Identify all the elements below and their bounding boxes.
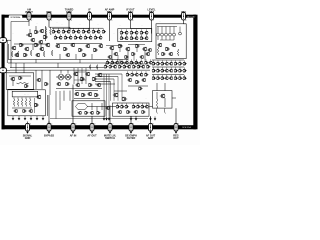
svg-text:6: 6 bbox=[132, 20, 133, 22]
svg-text:CIRC: CIRC bbox=[66, 11, 72, 14]
svg-text:7: 7 bbox=[153, 20, 154, 22]
svg-text:14: 14 bbox=[74, 123, 76, 125]
svg-text:SCH 12-A: SCH 12-A bbox=[182, 126, 191, 129]
svg-text:AF OUT: AF OUT bbox=[87, 135, 97, 138]
svg-text:IN: IN bbox=[88, 11, 91, 14]
svg-text:OSC: OSC bbox=[46, 11, 52, 14]
svg-text:BYPASS: BYPASS bbox=[44, 135, 54, 138]
svg-text:8: 8 bbox=[185, 20, 186, 22]
svg-text:5: 5 bbox=[111, 20, 112, 22]
svg-text:12: 12 bbox=[111, 123, 113, 125]
svg-text:VCC: VCC bbox=[181, 11, 186, 14]
svg-text:DEC: DEC bbox=[107, 11, 112, 14]
svg-text:11: 11 bbox=[132, 123, 134, 125]
svg-text:4: 4 bbox=[91, 20, 92, 22]
svg-text:FILTER: FILTER bbox=[127, 137, 136, 140]
svg-text:AGC: AGC bbox=[128, 11, 134, 14]
svg-text:GND: GND bbox=[25, 137, 31, 140]
svg-text:15: 15 bbox=[50, 123, 52, 125]
svg-text:SWITCH: SWITCH bbox=[105, 137, 115, 140]
svg-text:···: ··· bbox=[24, 95, 26, 97]
svg-text:2: 2 bbox=[51, 20, 52, 22]
svg-text:AMP: AMP bbox=[148, 137, 154, 140]
svg-text:INTERNAL: INTERNAL bbox=[10, 16, 21, 19]
svg-text:10: 10 bbox=[152, 123, 154, 125]
svg-text:AF IN: AF IN bbox=[70, 135, 77, 138]
svg-text:16: 16 bbox=[29, 123, 31, 125]
svg-text:OUT: OUT bbox=[173, 137, 179, 140]
svg-text:INPUT: INPUT bbox=[25, 11, 33, 14]
svg-text:9: 9 bbox=[178, 123, 179, 125]
svg-text:1: 1 bbox=[31, 20, 32, 22]
svg-text:3: 3 bbox=[71, 20, 72, 22]
svg-text:DET: DET bbox=[149, 11, 154, 14]
svg-text:13: 13 bbox=[93, 123, 95, 125]
svg-text:· BLK 24D ·: · BLK 24D · bbox=[186, 16, 196, 18]
